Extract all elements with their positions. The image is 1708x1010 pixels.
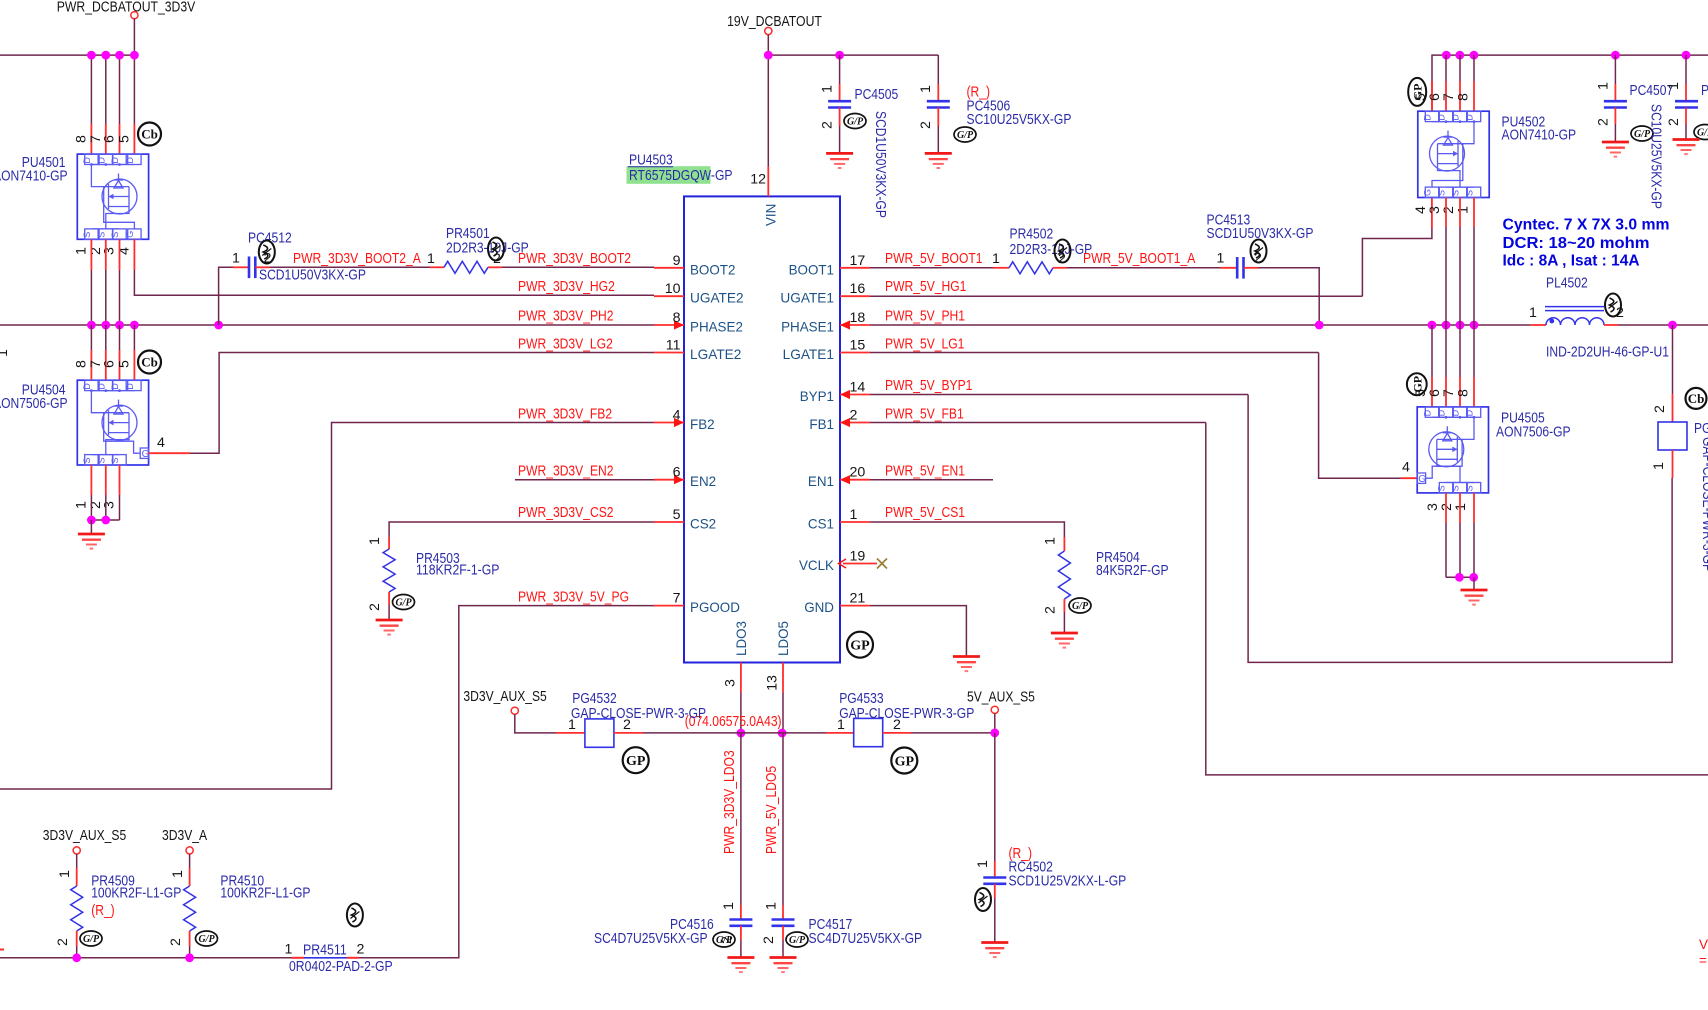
pin stub PC4512-1 — [233, 266, 249, 268]
stamp GP PR4504 — [1069, 598, 1091, 613]
pin stub IC right y422.5 — [840, 422, 870, 424]
wire PU4504 source col 2 — [119, 495, 121, 520]
wire PU4504 source col 1 — [105, 495, 107, 520]
ground PR4504 — [1051, 633, 1078, 648]
pin stub IC left y267.8 — [654, 267, 684, 269]
resistor PR4503 — [383, 549, 395, 592]
pin stub PC4507-1 — [1614, 84, 1616, 101]
svg-text:G/P: G/P — [198, 934, 215, 945]
svg-text:S: S — [96, 457, 106, 463]
pin stub IC left y522 — [654, 521, 684, 523]
ground PC4516 — [727, 958, 754, 973]
svg-text:S: S — [1451, 190, 1461, 196]
wire PC4517 gnd — [782, 940, 784, 958]
no-connect X VCLK — [877, 559, 887, 569]
svg-text:2: 2 — [850, 408, 858, 424]
wire PWR_5V_PH1 bus — [870, 324, 1531, 326]
junction PC4507 — [1611, 51, 1620, 60]
junction phase1 bus — [1470, 321, 1479, 330]
junction edge cap — [1682, 51, 1691, 60]
pin stub PU4502 top 2 — [1459, 81, 1461, 111]
svg-text:PWR_3D3V_LG2: PWR_3D3V_LG2 — [518, 337, 613, 353]
junction phase2 bus — [130, 321, 139, 330]
svg-text:2: 2 — [623, 717, 631, 733]
wire GND pin route — [870, 606, 966, 657]
svg-text:DCR: 18~20 mohm: DCR: 18~20 mohm — [1503, 235, 1650, 252]
ground IC GND — [953, 657, 980, 672]
capacitor PC4513 — [1237, 257, 1243, 279]
wire PC4505 drop — [839, 55, 841, 84]
wire PWR_5V_FB1 — [870, 422, 1206, 424]
wire PU4505 source col 2 — [1473, 523, 1475, 577]
svg-text:AON7506-GP: AON7506-GP — [0, 396, 68, 412]
svg-text:G: G — [1423, 189, 1433, 196]
svg-text:PWR_5V_HG1: PWR_5V_HG1 — [885, 279, 966, 295]
svg-text:D: D — [82, 157, 92, 164]
wire 5V to RC4502 — [994, 733, 996, 861]
junction right 19V bus — [1470, 51, 1479, 60]
svg-text:6: 6 — [102, 135, 118, 143]
stamp GP edge cap — [1694, 125, 1708, 140]
pin stub PR4502-1 — [993, 267, 1009, 269]
wire PWR_5V_BYP1 — [870, 394, 1248, 396]
svg-text:1: 1 — [975, 860, 991, 868]
inductor PL4502 polarity dot — [1549, 319, 1554, 324]
wire PU4501 drain col 1 — [105, 55, 107, 124]
pin stub PU4501 top 3 — [133, 124, 135, 154]
svg-text:PWR_3D3V_FB2: PWR_3D3V_FB2 — [518, 407, 612, 423]
wire LDO5 down — [782, 693, 784, 734]
wire PU4505 source col 1 — [1459, 523, 1461, 577]
wire LDO5 rail down — [782, 733, 784, 905]
svg-text:PWR_3D3V_CS2: PWR_3D3V_CS2 — [518, 505, 614, 521]
svg-text:BOOT2: BOOT2 — [690, 261, 736, 277]
stamp PR4501 — [488, 238, 504, 261]
svg-text:12: 12 — [750, 172, 766, 188]
pin arrow IC right y325 — [840, 320, 850, 329]
junction LDO5 row — [778, 729, 787, 738]
pin stub PR4503-2 — [388, 592, 390, 605]
wire 5V aux stub — [994, 713, 996, 733]
pin stub IC right y296.2 — [840, 295, 870, 297]
pin stub PC4516-1 — [740, 905, 742, 920]
svg-text:1: 1 — [1666, 82, 1682, 90]
wire PC4516 gnd — [740, 940, 742, 958]
svg-text:G: G — [125, 231, 135, 238]
wire PU4504 drain col 3 — [133, 325, 135, 350]
wire PWR_3D3V_EN2 — [515, 479, 654, 481]
svg-text:8: 8 — [1456, 93, 1472, 101]
svg-text:FB1: FB1 — [809, 416, 834, 432]
pin stub PU4505 top 2 — [1459, 377, 1461, 407]
terminal 19V_DCBATOUT — [765, 27, 772, 34]
pin arrow IC right y422.5 — [840, 418, 850, 427]
wire PU4502 source col 1 — [1459, 227, 1461, 325]
svg-text:5V_AUX_S5: 5V_AUX_S5 — [967, 689, 1035, 705]
svg-text:LDO3: LDO3 — [733, 621, 749, 656]
svg-text:RT6575DGQW-GP: RT6575DGQW-GP — [629, 168, 733, 184]
wire LDO3 to LDO5 row — [741, 732, 782, 734]
wire edge cap drop — [1685, 55, 1687, 84]
svg-text:0R0402-PAD-2-GP: 0R0402-PAD-2-GP — [289, 959, 393, 975]
pin stub PU4501 bottom 1 — [105, 239, 107, 270]
svg-text:PHASE1: PHASE1 — [781, 319, 834, 335]
svg-text:SCD1U50V3KX-GP: SCD1U50V3KX-GP — [872, 111, 888, 218]
wire PU4502 drain col 1 — [1459, 55, 1461, 81]
svg-text:S: S — [110, 457, 120, 463]
svg-text:3: 3 — [723, 679, 739, 687]
stamp PC4512 — [259, 241, 275, 264]
svg-text:D: D — [1437, 409, 1447, 416]
svg-text:S: S — [1465, 485, 1475, 491]
svg-text:2: 2 — [918, 121, 934, 129]
wire PR4503 to ground — [388, 605, 390, 620]
wire PC4505 to gnd — [839, 126, 841, 153]
pin stub PU4504 bottom 1 — [105, 465, 107, 495]
svg-text:S: S — [1465, 190, 1475, 196]
wire to ground PU4504 — [90, 520, 92, 534]
svg-text:SCD1U50V3KX-GP: SCD1U50V3KX-GP — [259, 268, 366, 284]
wire BYP1 route — [1248, 395, 1672, 663]
svg-text:3D3V_A: 3D3V_A — [162, 828, 207, 844]
wire 19V terminal — [767, 35, 769, 56]
ground PC4517 — [770, 958, 797, 973]
svg-text:SC4D7U25V5KX-GP: SC4D7U25V5KX-GP — [594, 931, 708, 947]
svg-text:D: D — [1451, 409, 1461, 416]
junction phase2 bus — [101, 321, 110, 330]
svg-text:UGATE2: UGATE2 — [690, 290, 744, 306]
stamp GP PU4505 — [1407, 373, 1427, 395]
svg-text:S: S — [1437, 485, 1447, 491]
wire PU4501 drain col 2 — [119, 55, 121, 124]
wire PU4504 drain col 1 — [105, 325, 107, 350]
wire 19V left bus — [0, 54, 134, 56]
junction PR4510 bus — [185, 953, 194, 962]
pin stub PGright-1 — [1672, 450, 1674, 478]
svg-text:GP: GP — [850, 639, 870, 654]
svg-text:1: 1 — [1529, 305, 1537, 321]
pin stub IC right y325 — [840, 324, 870, 326]
wire PR4509 top — [76, 854, 78, 868]
svg-text:18: 18 — [850, 310, 866, 326]
pin open arrow VCLK — [839, 559, 847, 568]
svg-text:19V_DCBATOUT: 19V_DCBATOUT — [727, 14, 822, 30]
terminal 5V_AUX_S5 — [991, 706, 998, 713]
pin stub PU4505 bottom 2 — [1473, 493, 1475, 523]
svg-text:8: 8 — [1456, 389, 1472, 397]
highlight PU4503 value — [627, 166, 711, 184]
ground PC4505 — [826, 153, 853, 168]
pin stub RC4502-2 — [994, 884, 996, 898]
svg-text:G/P: G/P — [847, 117, 864, 128]
svg-text:2: 2 — [367, 603, 383, 611]
junction phase1 bus — [1442, 321, 1451, 330]
svg-text:VIN: VIN — [762, 204, 778, 226]
junction 19V bus 0 — [87, 51, 96, 60]
wire PU4502 source col 2 — [1473, 227, 1475, 325]
pin stub PU4504 top 2 — [119, 350, 121, 380]
wire PR4504 to ground — [1063, 612, 1065, 633]
junction phase1 bus — [1456, 321, 1465, 330]
pin stub PC4512-2 — [255, 266, 270, 268]
wire terminal to bus — [133, 19, 135, 55]
wire PU4501 drain col 0 — [90, 55, 92, 124]
svg-text:(R_): (R_) — [91, 903, 115, 919]
svg-text:V: V — [1699, 937, 1708, 952]
svg-text:2: 2 — [168, 938, 184, 946]
svg-text:PG45: PG45 — [1694, 421, 1708, 437]
svg-text:11: 11 — [666, 338, 681, 354]
svg-text:100KR2F-L1-GP: 100KR2F-L1-GP — [220, 886, 310, 902]
svg-text:20: 20 — [850, 465, 866, 481]
svg-text:GP: GP — [1410, 376, 1424, 393]
ground PU4505 — [1461, 590, 1488, 605]
svg-text:1: 1 — [285, 942, 293, 958]
svg-text:1: 1 — [1596, 82, 1612, 90]
junction PU4505 src b — [1469, 573, 1478, 582]
svg-text:D: D — [1451, 114, 1461, 121]
svg-text:PWR_3D3V_PH2: PWR_3D3V_PH2 — [518, 309, 614, 325]
svg-text:2: 2 — [1666, 118, 1682, 126]
terminal 3D3V_AUX_S5 mid — [511, 707, 518, 714]
junction phase2 bus — [87, 321, 96, 330]
stamp GP IC — [847, 632, 873, 658]
svg-text:D: D — [110, 383, 120, 390]
capacitor PC4512 — [249, 257, 255, 279]
pin stub IC right y522 — [840, 521, 870, 523]
svg-text:3: 3 — [102, 501, 118, 509]
junction PU4504 src a — [87, 516, 96, 525]
svg-text:4: 4 — [673, 408, 681, 424]
wire PU4504 source col 0 — [90, 495, 92, 520]
svg-text:2: 2 — [357, 942, 365, 958]
pin stub PU4504 gate — [149, 452, 190, 454]
pin stub IC right y479.7 — [840, 479, 870, 481]
pin stub LDO3 — [740, 663, 742, 693]
pin stub PU4502 bottom 0 — [1445, 198, 1447, 228]
pin stub PU4505 bottom 0 — [1445, 493, 1447, 523]
pin stub PU4502 top 1 — [1445, 81, 1447, 111]
svg-text:D: D — [1465, 114, 1475, 121]
wire PWR_3D3V_PH2 bus — [0, 324, 654, 326]
stamp PL4502 — [1605, 294, 1621, 317]
svg-text:1: 1 — [992, 251, 1000, 267]
svg-text:Cb: Cb — [141, 355, 158, 370]
wire PG4533 to 5V — [911, 732, 995, 734]
terminal PWR_DCBATOUT_3D3V — [131, 12, 138, 19]
junction LDO3 row — [737, 729, 746, 738]
svg-text:PWR_3D3V_5V_PG: PWR_3D3V_5V_PG — [518, 590, 629, 606]
wire PWR_3D3V_BOOT2 — [502, 266, 654, 268]
wire LDO3 rail down — [740, 733, 742, 905]
wire PU4501 source col 0 — [90, 270, 92, 325]
pin stub PR4503-1 — [388, 537, 390, 549]
capacitor PC edge — [1675, 101, 1698, 107]
svg-text:2: 2 — [1652, 405, 1668, 413]
wire PWR_5V_LG1 — [870, 352, 1319, 354]
wire PU4502 drain col 2 — [1473, 55, 1475, 81]
wire PWR_3D3V_LG2 route — [190, 353, 654, 454]
junction 5V output — [1668, 321, 1677, 330]
svg-text:CS1: CS1 — [808, 516, 834, 532]
svg-text:D: D — [1437, 114, 1447, 121]
pin stub IC right y267.8 — [840, 267, 870, 269]
svg-text:14: 14 — [850, 380, 866, 396]
junction phase1 bus — [1428, 321, 1437, 330]
pin arrow IC right y479.7 — [840, 475, 850, 484]
wire 3d3v aux drop — [515, 714, 556, 733]
svg-text:PWR_DCBATOUT_3D3V: PWR_DCBATOUT_3D3V — [57, 0, 196, 16]
svg-text:GAP-CLOSE-PWR-3-GP: GAP-CLOSE-PWR-3-GP — [571, 706, 706, 722]
stamp Cb right — [1686, 388, 1707, 409]
svg-text:1: 1 — [170, 870, 186, 878]
svg-text:2: 2 — [820, 121, 836, 129]
wire FB1 route — [1206, 423, 1708, 775]
wire PWR_5V_CS1 route — [870, 522, 1064, 537]
ic PU4503 outline — [684, 196, 840, 662]
wire PU4504 source join — [91, 519, 119, 521]
pin stub RC4502-1 — [994, 861, 996, 878]
junction PR4509 bus — [72, 953, 81, 962]
wire PC4507 drop — [1614, 55, 1616, 84]
svg-text:PU4503: PU4503 — [629, 153, 673, 169]
inductor PL4502 shield — [1545, 307, 1604, 311]
pin stub PU4505 top 1 — [1445, 377, 1447, 407]
svg-text:VCLK: VCLK — [799, 557, 835, 573]
svg-text:BOOT1: BOOT1 — [789, 261, 835, 277]
svg-text:118KR2F-1-GP: 118KR2F-1-GP — [416, 563, 499, 579]
wire edge cap gnd — [1685, 124, 1687, 140]
stamp Cb PU4504 — [138, 351, 161, 374]
wire PU4505 to ground — [1473, 577, 1475, 590]
wire PC4506 to gnd — [937, 126, 939, 153]
svg-text:S: S — [110, 232, 120, 238]
svg-text:G/P: G/P — [83, 934, 100, 945]
stamp RC4502 — [975, 888, 991, 911]
svg-text:1: 1 — [918, 85, 934, 93]
svg-text:PWR_5V_PH1: PWR_5V_PH1 — [885, 309, 965, 325]
svg-text:1: 1 — [850, 507, 858, 523]
pin stub PR4511-1 — [292, 957, 305, 959]
svg-text:G: G — [1418, 474, 1426, 485]
pin stub PU4504 top 1 — [105, 350, 107, 380]
svg-text:GAP-CLOSE-PWR-3-GP: GAP-CLOSE-PWR-3-GP — [839, 706, 974, 722]
capacitor PC4516 — [729, 920, 752, 926]
pin stub PR4504-1 — [1063, 537, 1065, 551]
svg-text:SC10U25V5KX-GP: SC10U25V5KX-GP — [1648, 104, 1664, 209]
svg-text:G/P: G/P — [395, 598, 412, 609]
wire HG1 to PU4502 gate — [1362, 228, 1432, 296]
pin stub edgecap-1 — [1685, 84, 1687, 101]
wire PU4505 drain col 1 — [1445, 325, 1447, 377]
pin stub PU4501 top 2 — [119, 124, 121, 154]
wire PR4510 top — [189, 854, 191, 868]
svg-text:2D2R3-10J-GP: 2D2R3-10J-GP — [1010, 242, 1093, 258]
wire PWR_5V_HG1 — [870, 295, 1362, 297]
svg-text:D: D — [1465, 409, 1475, 416]
wire PU4501 source col 2 — [119, 270, 121, 325]
svg-text:D: D — [110, 157, 120, 164]
pin stub PC4506-1 — [937, 84, 939, 101]
wire LDO3 down — [740, 693, 742, 734]
svg-text:PWR_3D3V_LDO3: PWR_3D3V_LDO3 — [722, 750, 738, 854]
pin stub PR4502-2 — [1053, 267, 1067, 269]
junction 5V aux — [990, 729, 999, 738]
resistor PR4509 — [71, 886, 83, 931]
svg-text:17: 17 — [850, 253, 866, 269]
svg-text:PHASE2: PHASE2 — [690, 319, 743, 335]
svg-text:PC4512: PC4512 — [248, 231, 292, 247]
ground RC4502 — [981, 943, 1008, 958]
ground PU4504 — [78, 534, 105, 549]
stamp GP PG4533 — [891, 748, 917, 774]
wire PWR_5V_BOOT1 — [870, 267, 993, 269]
svg-text:5: 5 — [116, 360, 132, 368]
svg-text:2: 2 — [1043, 606, 1059, 614]
wire PWR_3D3V_HG2 run — [134, 270, 654, 295]
pin stub PU4505 top 0 — [1431, 377, 1433, 407]
svg-text:PG4532: PG4532 — [572, 691, 616, 707]
stamp GP PC4516 — [713, 932, 735, 947]
svg-text:AON7410-GP: AON7410-GP — [1502, 128, 1577, 144]
svg-text:FB2: FB2 — [690, 416, 715, 432]
resistor PR4502 — [1009, 262, 1053, 274]
pin stub PU4505 top 3 — [1473, 377, 1475, 407]
pin stub PU4501 top 1 — [105, 124, 107, 154]
svg-text:3D3V_AUX_S5: 3D3V_AUX_S5 — [43, 828, 126, 844]
svg-text:PWR_5V_BYP1: PWR_5V_BYP1 — [885, 378, 972, 394]
wire PU4505 drain col 0 — [1431, 325, 1433, 377]
pin stub PR4510-1 — [189, 868, 191, 886]
svg-text:1: 1 — [1043, 537, 1059, 545]
wire PR4509 to bus — [76, 946, 78, 958]
svg-text:84K5R2F-GP: 84K5R2F-GP — [1096, 563, 1169, 579]
svg-text:1: 1 — [57, 870, 73, 878]
svg-text:G/P: G/P — [1072, 601, 1089, 612]
pin arrow IC left y325 — [674, 320, 684, 329]
stamp GP PC4517 — [786, 932, 808, 947]
svg-text:GP: GP — [1411, 84, 1425, 101]
stamp PC4513 — [1251, 240, 1267, 263]
svg-text:GAP-CLOSE-PWR-3-GP: GAP-CLOSE-PWR-3-GP — [1699, 437, 1708, 572]
resistor PR4510 — [184, 886, 196, 931]
pin stub PGright-2 — [1672, 394, 1674, 422]
wire PG4532 to LDO3 — [643, 732, 741, 734]
junction right 19V bus — [1442, 51, 1451, 60]
stamp GP PC4506 — [954, 127, 976, 142]
pin stub PC4505-1 — [839, 84, 841, 101]
wire PC4507 gnd — [1614, 124, 1616, 142]
svg-text:SC10U25V5KX-GP: SC10U25V5KX-GP — [967, 112, 1072, 128]
resistor PR4504 — [1058, 551, 1070, 599]
wire 19V bus — [768, 54, 938, 56]
pin stub PC4516-2 — [740, 926, 742, 940]
terminal 3D3V_A — [186, 847, 193, 854]
pin stub IC left y325 — [654, 324, 684, 326]
svg-text:PGOOD: PGOOD — [690, 599, 740, 615]
wire PU4505 drain col 3 — [1473, 325, 1475, 377]
svg-text:PC4505: PC4505 — [855, 87, 899, 103]
capacitor PC4506 — [927, 101, 950, 107]
svg-text:D: D — [1423, 409, 1433, 416]
svg-text:Cb: Cb — [1688, 391, 1705, 406]
wire PR4510 to bus — [189, 946, 191, 958]
wire PWR_5V_BOOT1_A — [1067, 267, 1221, 269]
junction 19V bus 1 — [101, 51, 110, 60]
pin stub PC4505-2 — [839, 108, 841, 127]
wire PU4504 drain col 0 — [90, 325, 92, 350]
pin stub PG4532-1 — [556, 732, 585, 734]
